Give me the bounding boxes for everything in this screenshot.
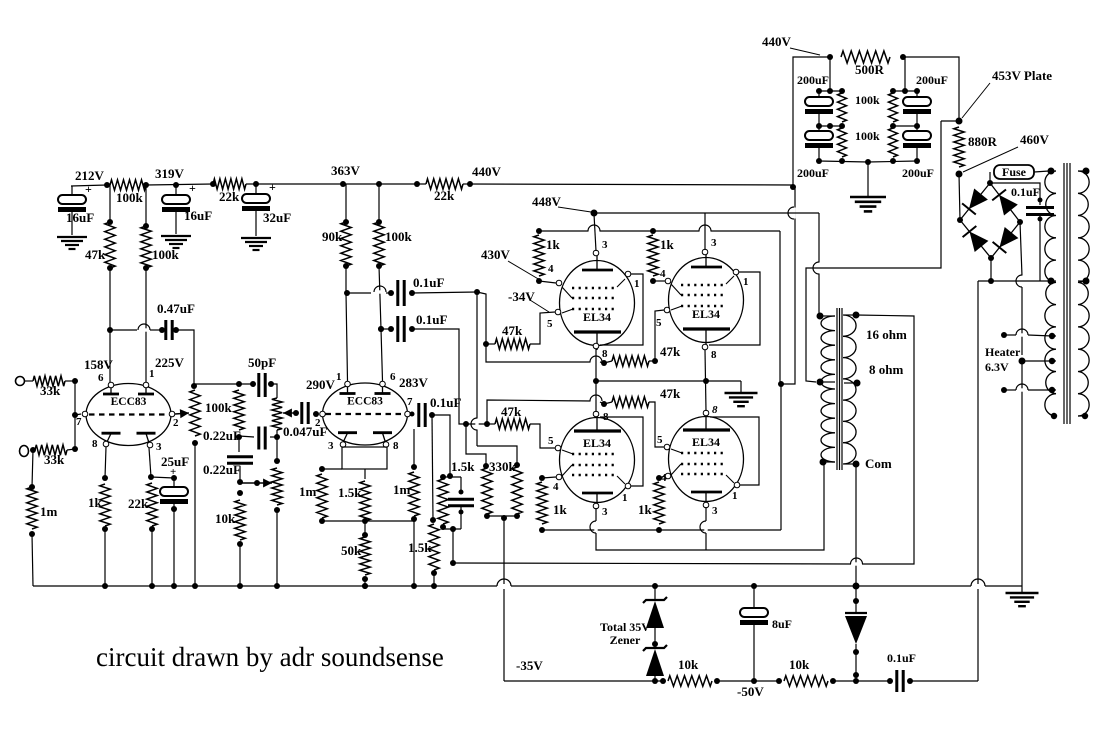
pin 1 of V2 [733, 269, 739, 275]
svg-text:1k: 1k [638, 502, 653, 517]
wire 0.1uF-A left [347, 292, 371, 294]
node screen junction [778, 381, 784, 387]
hop heater top [1017, 333, 1028, 336]
node 0.1uF-A tap [344, 290, 350, 296]
svg-text:1k: 1k [553, 502, 568, 517]
pin 1 of V1 [625, 271, 631, 277]
resistor 100k (ECC83#2 plate) [378, 184, 380, 222]
wire 22k to rail [151, 529, 153, 586]
wire 330k bottoms [487, 515, 517, 517]
resistor 100k bleeder 2 [838, 128, 847, 157]
node 47k1 left [483, 341, 489, 347]
wire com down [855, 464, 857, 586]
pin 3 of U1 [147, 442, 153, 448]
pin 6 of U2 [380, 381, 386, 387]
hop 596 on 362 [591, 360, 602, 363]
svg-text:22k: 22k [219, 189, 240, 204]
svg-text:2: 2 [315, 417, 321, 429]
svg-text:47k: 47k [660, 344, 681, 359]
wire 453V to OT CT [941, 120, 959, 122]
fuse F1 [989, 172, 991, 183]
tube ECC83 U1 [86, 384, 171, 446]
capacitor 200uF 4 [916, 126, 918, 131]
svg-text:200uF: 200uF [797, 166, 829, 180]
node rail pot3 [274, 583, 280, 589]
wire g3 hook V3 [600, 417, 643, 486]
node rail to psu junction [790, 184, 796, 190]
wire to 47k3 [600, 362, 604, 363]
svg-text:3: 3 [711, 237, 717, 249]
node rail 1.5k2 [431, 583, 437, 589]
node PT hv top [1048, 168, 1055, 175]
wire bridge minus down [1020, 222, 1022, 276]
resistor 22k (to 440V) [426, 179, 463, 189]
OT secondary winding [843, 315, 856, 464]
wire bias line left [504, 680, 663, 682]
svg-text:283V: 283V [399, 375, 429, 390]
capacitor 0.1uF (bridge) [990, 183, 1040, 205]
node PT heater bottom [1049, 387, 1055, 393]
pin 4 of V1 [556, 280, 562, 286]
resistor 100k bleeder 1 [838, 93, 847, 122]
node 100k4 top [236, 381, 242, 387]
wire 90k to ECC83#2 pin1 [346, 266, 348, 381]
wire box center drop [364, 469, 366, 479]
hop rail over 978 [972, 584, 985, 587]
svg-text:8: 8 [712, 404, 718, 416]
node 32uF tap [253, 181, 259, 187]
svg-text:1: 1 [622, 492, 628, 504]
svg-text:0.1uF: 0.1uF [413, 275, 444, 290]
node psu row1 [816, 88, 822, 94]
capacitor 200uF 2 [818, 126, 820, 131]
svg-text:100k: 100k [855, 93, 880, 107]
wire 47k to pin6 [109, 268, 111, 384]
pin 3 of V1 [593, 250, 599, 256]
node J2 junction [30, 447, 36, 453]
hop 819 over 268 [817, 263, 820, 274]
svg-text:1: 1 [336, 371, 342, 383]
wire 487 up to 47k4 feed [487, 400, 592, 424]
svg-text:6.3V: 6.3V [985, 360, 1009, 374]
svg-text:1.5k: 1.5k [451, 459, 475, 474]
pointer -34V [530, 300, 549, 312]
resistor 1k (V2 screen) [650, 228, 656, 234]
pin 8 of V2 [702, 344, 708, 350]
svg-text:440V: 440V [472, 164, 502, 179]
wire 1022 down [1021, 287, 1023, 355]
resistor 47k (g1 EL34#2) [604, 361, 612, 363]
hop over 146 wire [139, 328, 150, 331]
svg-text:225V: 225V [155, 355, 185, 370]
node rail 8uF [751, 583, 757, 589]
wire psu ground stem [867, 162, 869, 196]
pin 2 of U1 [169, 411, 175, 417]
svg-text:ECC83: ECC83 [347, 396, 383, 408]
wire pot3 bottom to rail [276, 510, 278, 586]
pin 4 of V3 [556, 474, 562, 480]
pointer 430V [508, 261, 540, 280]
svg-text:0.22uF: 0.22uF [203, 462, 241, 477]
wire 330k center to bias 2 [503, 589, 505, 681]
svg-text:-50V: -50V [737, 684, 764, 699]
node OT prim top [817, 313, 824, 320]
node psu row2 r [890, 123, 896, 129]
node OT sec com [853, 461, 860, 468]
wire pin3 V2 up [704, 213, 706, 250]
node 47k2 left [484, 421, 490, 427]
wire 1k3 to pin4 [542, 477, 556, 478]
wire cathode join [322, 520, 414, 522]
resistor 880R [954, 127, 964, 167]
svg-text:50k: 50k [341, 543, 362, 558]
node 10k top [237, 490, 243, 496]
wire 50pF to pot2 top [271, 384, 277, 398]
node 448V [591, 210, 598, 217]
svg-text:100k: 100k [116, 190, 144, 205]
wire par bottom [443, 527, 461, 529]
wiper pot2 from 0.047uF [283, 412, 294, 414]
node OT sec 8ohm [844, 382, 857, 384]
svg-text:7: 7 [76, 416, 82, 428]
capacitor 16uF C1 [71, 186, 73, 195]
resistor 100k bleeder 3 [889, 93, 898, 122]
pin 6 of U1 [108, 382, 114, 388]
zener D3 (35V) [654, 644, 656, 648]
svg-text:Total 35V: Total 35V [600, 620, 650, 634]
resistor 47k (g1 EL34#4) [604, 402, 612, 404]
node bridge top [987, 180, 993, 186]
svg-text:5: 5 [548, 435, 554, 447]
svg-text:8: 8 [393, 440, 399, 452]
pin 5 of V4 [664, 444, 670, 450]
svg-text:453V Plate: 453V Plate [992, 68, 1052, 83]
svg-text:1m: 1m [393, 482, 411, 497]
pin 1 of U2 [345, 381, 351, 387]
svg-text:1: 1 [743, 276, 749, 288]
wire 0.1uF-C to 1.5k [432, 415, 433, 520]
node OT prim bottom [820, 459, 827, 466]
resistor 330k left [483, 463, 489, 469]
resistor 10k (bias 2) [784, 676, 828, 686]
wire main ground rail 3 [985, 585, 1022, 587]
wire pin3 V3 down [595, 508, 597, 521]
node PT right top [1083, 168, 1090, 175]
resistor 330k right [514, 462, 520, 468]
pin 8 of U1 [103, 441, 109, 447]
wire 448V down to OT [818, 213, 820, 316]
wire pin3 junction to 25uF [151, 477, 174, 478]
resistor 22k (rail) [213, 179, 246, 189]
capacitor 50pF [250, 381, 256, 387]
wire 477 down [476, 292, 478, 446]
pin 3 of V4 [703, 502, 709, 508]
wire psu left bus [829, 57, 831, 91]
wire screen bus right down [779, 231, 781, 382]
wire rail 363V-440V [343, 183, 426, 185]
capacitor 0.22uF v [238, 436, 240, 452]
node rail 25uF [171, 583, 177, 589]
wire 0.1uF to bridge minus [910, 680, 978, 682]
PT core [1063, 163, 1065, 424]
svg-text:200uF: 200uF [902, 166, 934, 180]
svg-text:1k: 1k [546, 237, 561, 252]
pin 1 of V3 [625, 483, 631, 489]
tube EL34 V3 [560, 418, 635, 503]
svg-text:+: + [269, 180, 276, 194]
node 22k left lead [210, 181, 216, 187]
wire par to feedback line [452, 529, 454, 563]
resistor 1k (U1 cathode) [100, 484, 110, 526]
svg-text:5: 5 [656, 317, 662, 329]
node PT heater top [1049, 333, 1055, 339]
wire pin8 to 1k [105, 447, 106, 478]
pin 3 of U2 [340, 442, 346, 448]
capacitor par [460, 477, 462, 492]
svg-text:100k: 100k [385, 229, 413, 244]
wire 1.5k2 to rail [433, 573, 435, 586]
wire 1k1 to pin4 [539, 281, 556, 283]
bridge diode bottom-right [1000, 227, 1019, 248]
svg-text:8: 8 [92, 438, 98, 450]
svg-text:100k: 100k [855, 129, 880, 143]
svg-text:0.1uF: 0.1uF [1011, 185, 1040, 199]
wire 0.1uF-A right to 477 [412, 292, 477, 293]
wire pin3 V1 up [594, 214, 596, 251]
wire to 0.47uF [150, 329, 162, 331]
resistor 47k (g1 EL34#3) [487, 423, 495, 425]
wire screen bus bottom up [780, 384, 782, 530]
pointer 440V [790, 48, 820, 55]
svg-text:3: 3 [156, 441, 162, 453]
pin 2 of U2 [320, 411, 326, 417]
svg-text:-34V: -34V [508, 289, 535, 304]
svg-text:Heater: Heater [985, 345, 1021, 359]
svg-text:8 ohm: 8 ohm [869, 362, 903, 377]
svg-text:0.22uF: 0.22uF [203, 428, 241, 443]
pointer 460V [963, 147, 1018, 172]
node rail 22k [149, 583, 155, 589]
wire riser to 440V node [793, 57, 830, 185]
pointer 448V [558, 207, 591, 212]
OT core [836, 308, 838, 470]
svg-text:8: 8 [711, 349, 717, 361]
PT left winding [1045, 171, 1056, 416]
wire feedback to preamp [453, 563, 851, 564]
svg-text:0.1uF: 0.1uF [430, 395, 461, 410]
svg-text:3: 3 [328, 440, 334, 452]
hop screen over 594 [589, 229, 600, 232]
wire 466 to 330k left [466, 424, 486, 466]
hop over pin6 wire [375, 290, 386, 293]
svg-text:200uF: 200uF [916, 73, 948, 87]
resistor 22k (U1b cathode) [147, 483, 157, 526]
resistor 1k (V4 screen) [656, 475, 662, 481]
pin 7 of U2 [405, 411, 411, 417]
wire 47k4 to pin5 U6 [649, 402, 664, 447]
node 363V junction [340, 181, 346, 187]
node 22k2 left lead [414, 181, 420, 187]
wire zener top [654, 586, 656, 600]
wire 1k4 to pin4 [659, 476, 665, 478]
svg-text:3: 3 [602, 239, 608, 251]
wire main ground rail 2 [511, 585, 971, 587]
svg-text:290V: 290V [306, 377, 336, 392]
svg-text:EL34: EL34 [583, 310, 611, 324]
capacitor 25uF [173, 478, 175, 487]
svg-text:319V: 319V [155, 166, 185, 181]
wire screen jog to riser [781, 188, 795, 384]
svg-text:2: 2 [173, 417, 179, 429]
node y424 drop 330k left [463, 421, 469, 427]
svg-text:circuit drawn by adr soundsens: circuit drawn by adr soundsense [96, 642, 444, 672]
svg-text:16 ohm: 16 ohm [866, 327, 907, 342]
PT right winding [1078, 171, 1089, 416]
bridge diode top-left [969, 189, 988, 210]
OT primary winding [821, 316, 835, 462]
wire psu right bus [904, 57, 906, 91]
svg-text:7: 7 [407, 396, 413, 408]
pin 5 of V2 [664, 307, 670, 313]
node bridge left [957, 217, 963, 223]
pin 3 of V3 [593, 503, 599, 509]
wire cathode V1-V3 [595, 349, 597, 412]
wire g3 hook V2 [709, 272, 760, 345]
wire 880R to bridge [959, 174, 960, 220]
wire ground stem [740, 381, 742, 392]
resistor 1m (grid leak U2) [322, 468, 342, 470]
svg-text:158V: 158V [84, 357, 114, 372]
wire heater bottom b [1028, 389, 1052, 391]
node heater ct [1019, 358, 1026, 365]
capacitor 200uF 3 [916, 91, 918, 97]
svg-text:1m: 1m [299, 484, 317, 499]
wire 100k3 to pin6 [379, 266, 383, 381]
svg-text:Zener: Zener [610, 633, 641, 647]
ground rail end symbol [1006, 592, 1039, 594]
wire 1k to rail [104, 529, 106, 586]
pin 3 of V2 [702, 249, 708, 255]
node PT hv bottom [1048, 278, 1055, 285]
node 100k3 tap [376, 181, 382, 187]
wire 1m2 to rail [413, 519, 415, 586]
node 0.47uF left tap [107, 327, 113, 333]
pin 8 of V4 [703, 410, 709, 416]
hop 477 over 424 [475, 419, 478, 430]
wire 47k2 to pin5 [530, 424, 555, 448]
svg-text:6: 6 [390, 371, 396, 383]
node bridge bottom [988, 255, 994, 261]
capacitor 200uF 1 [818, 91, 820, 97]
wire bias riser [977, 281, 979, 584]
svg-text:6: 6 [98, 372, 104, 384]
wire to 47k4 [600, 402, 604, 404]
input jack J1 [16, 377, 25, 386]
svg-text:4: 4 [548, 263, 554, 275]
svg-text:EL34: EL34 [583, 436, 611, 450]
svg-text:212V: 212V [75, 168, 105, 183]
bridge diode bottom-left [970, 232, 989, 253]
wire cathode bus [596, 380, 741, 382]
node psu ground [865, 159, 871, 165]
svg-text:1k: 1k [660, 237, 675, 252]
svg-text:200uF: 200uF [797, 73, 829, 87]
wire 50k to rail [364, 579, 366, 586]
svg-text:Com: Com [865, 456, 892, 471]
node 212V rail junction [104, 182, 110, 188]
resistor 33k (input 1) [25, 380, 34, 382]
svg-text:50pF: 50pF [248, 355, 276, 370]
node psu row3 [816, 158, 822, 164]
resistor 1.5k (U2 cathode) [360, 481, 370, 521]
svg-text:+: + [85, 182, 92, 196]
svg-text:47k: 47k [660, 386, 681, 401]
svg-text:22k: 22k [434, 188, 455, 203]
hop 1022 over 281 [1020, 276, 1023, 287]
svg-text:+: + [170, 466, 176, 478]
svg-text:-35V: -35V [516, 658, 543, 673]
wire rail 440V to PSU riser [467, 184, 793, 185]
node 500R right [900, 54, 906, 60]
wire main ground rail [33, 585, 497, 587]
node rail 1m2 [411, 583, 417, 589]
resistor 1k (V3 screen) [539, 475, 545, 481]
pin 4 of V4 [665, 473, 671, 479]
ground below C2 [161, 235, 191, 237]
svg-text:0.047uF: 0.047uF [283, 424, 327, 439]
resistor 1.5k (fb divider) [429, 524, 439, 570]
wire 16ohm feedback [856, 315, 914, 564]
svg-text:430V: 430V [481, 247, 511, 262]
svg-text:47k: 47k [502, 323, 523, 338]
pin 4 of V2 [665, 278, 671, 284]
wire cathode box U2 [342, 447, 387, 469]
wire pin3 down [149, 448, 151, 477]
svg-text:8: 8 [602, 348, 608, 360]
tube ECC83 U2 [323, 383, 408, 445]
svg-text:4: 4 [553, 481, 559, 493]
svg-text:1m: 1m [40, 504, 58, 519]
node bridge right [1017, 219, 1023, 225]
wire 0.1uF-C right branch [432, 415, 450, 476]
svg-text:440V: 440V [762, 34, 792, 49]
capacitor 0.1uF (bias) [895, 670, 898, 692]
pin 7 of U1 [82, 411, 88, 417]
bridge diode top-right [999, 195, 1018, 216]
svg-text:0.47uF: 0.47uF [157, 301, 195, 316]
capacitor 0.1uF A [386, 292, 391, 294]
potentiometer 2 body [272, 398, 282, 430]
resistor 90k [345, 184, 347, 222]
wire 477 to 330k right [477, 446, 517, 465]
wire J1 to pin7 [74, 381, 76, 449]
wire bridge bottom to hv [990, 258, 992, 281]
wire pin3 V3 to OT bottom [596, 462, 824, 550]
svg-text:3: 3 [712, 505, 718, 517]
capacitor 0.047uF [293, 410, 299, 416]
svg-text:ECC83: ECC83 [111, 396, 147, 408]
wire hv bottom line [978, 280, 1051, 282]
svg-text:448V: 448V [532, 194, 562, 209]
capacitor 32uF C3 [255, 184, 257, 194]
resistor 1k (V1 screen) [536, 228, 542, 234]
svg-text:0.1uF: 0.1uF [887, 651, 916, 665]
tube EL34 V2 [669, 258, 744, 343]
resistor 47k (g1 EL34#1) [486, 343, 495, 345]
node 1.5k par top [447, 473, 453, 479]
node 440V psu [827, 54, 833, 60]
svg-text:10k: 10k [678, 657, 699, 672]
